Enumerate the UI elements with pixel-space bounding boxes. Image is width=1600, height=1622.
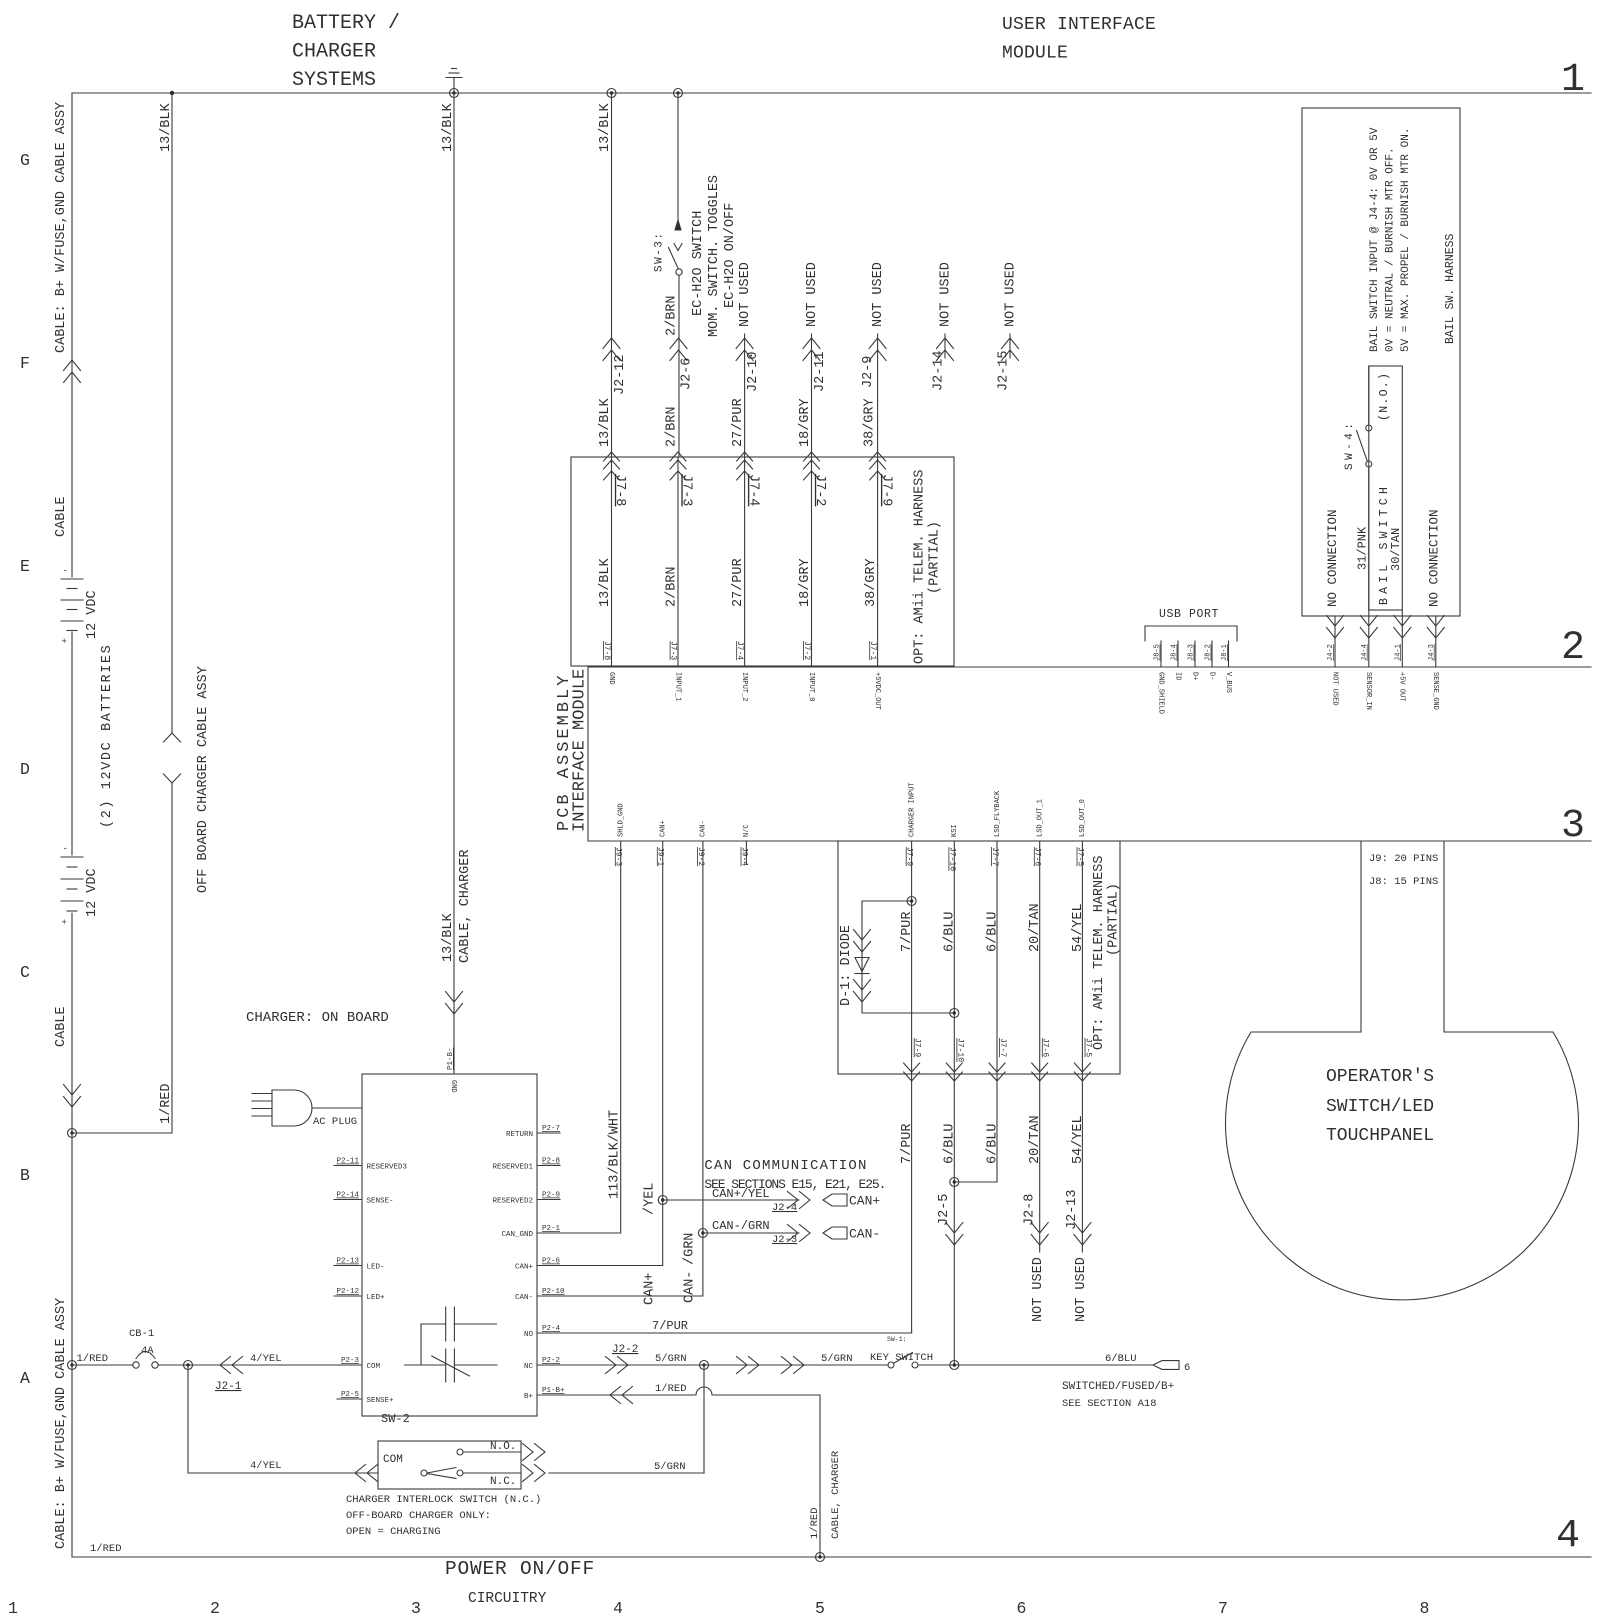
svg-text:27/PUR: 27/PUR [731, 398, 746, 447]
svg-text:J2-5: J2-5 [937, 1194, 952, 1226]
svg-text:POWER ON/OFF: POWER ON/OFF [445, 1558, 595, 1580]
svg-text:BAIL SW. HARNESS: BAIL SW. HARNESS [1444, 233, 1457, 344]
wire rail 2 (PCB module top edge) [588, 666, 1591, 668]
svg-text:J2-9: J2-9 [861, 356, 876, 388]
svg-text:J7-5: J7-5 [1083, 1038, 1092, 1057]
svg-text:(PARTIAL): (PARTIAL) [1107, 883, 1122, 956]
svg-text:CHARGER: ON BOARD: CHARGER: ON BOARD [246, 1010, 389, 1026]
connector chevron J4-3 [1427, 616, 1444, 639]
svg-text:N.C.: N.C. [490, 1476, 516, 1488]
wire stub P1-B+ [537, 1394, 560, 1396]
wire stub P2-2 [537, 1364, 560, 1366]
node junction ground / charger GND wire [450, 89, 459, 98]
svg-text:13/BLK: 13/BLK [441, 102, 456, 152]
connector chevron 1/RED [610, 1387, 633, 1404]
svg-text:SW-3:: SW-3: [654, 231, 666, 272]
svg-text:CHARGER: CHARGER [292, 41, 376, 64]
svg-text:NOT USED: NOT USED [1003, 262, 1018, 327]
svg-text:2: 2 [1561, 626, 1585, 671]
connector chevron N.C. [523, 1465, 546, 1482]
svg-text:27/PUR: 27/PUR [731, 558, 746, 607]
connector chevron J7-9 [870, 452, 886, 480]
svg-text:P1-B+: P1-B+ [542, 1387, 565, 1395]
wire 5/GRN drop [703, 1365, 705, 1473]
svg-text:SWITCH/LED: SWITCH/LED [1326, 1097, 1434, 1117]
svg-text:NC: NC [524, 1363, 534, 1371]
switch SW-3 EC-H2O momentary [669, 220, 683, 275]
wire stub P2-10 [537, 1295, 560, 1297]
node junction 13/BLK J2-12 wire [607, 89, 616, 98]
svg-text:7/PUR: 7/PUR [900, 911, 915, 952]
svg-text:J2-4: J2-4 [772, 1202, 797, 1214]
svg-text:F: F [20, 354, 30, 373]
wire CAN+ branch to J2-4 [663, 1199, 799, 1201]
svg-text:J8-4: J8-4 [1171, 644, 1179, 661]
svg-text:P1-B-: P1-B- [447, 1047, 455, 1070]
box OPT AMii telem harness (lower) [838, 841, 1120, 1074]
svg-text:5V = MAX. PROPEL / BURNISH MTR: 5V = MAX. PROPEL / BURNISH MTR ON. [1400, 128, 1412, 352]
svg-text:CAN-: CAN- [515, 1294, 533, 1302]
connector chevron J4-1 [1394, 616, 1411, 639]
svg-text:CAN-: CAN- [700, 820, 708, 837]
wire 13/BLK inside telem harness [611, 457, 613, 667]
svg-text:J7-7: J7-7 [998, 1038, 1007, 1057]
svg-text:7/PUR: 7/PUR [900, 1123, 915, 1164]
svg-text:NOT USED: NOT USED [805, 262, 820, 327]
wire 6/BLU lsd_flyback [954, 841, 997, 1182]
connector chevron J2-10 [736, 338, 753, 361]
svg-text:J7-8: J7-8 [612, 474, 627, 506]
battery BAT2 12VDC [61, 857, 83, 911]
svg-text:6/BLU: 6/BLU [1105, 1353, 1137, 1365]
svg-text:NOT USED: NOT USED [1074, 1257, 1089, 1322]
svg-text:B+: B+ [524, 1393, 534, 1401]
svg-text:NOT USED: NOT USED [938, 262, 953, 327]
wire 1/RED drop to rail 4 [819, 1395, 821, 1557]
wire 4/YEL to SW-2 [188, 1472, 378, 1474]
connector chevron J2-4 [788, 1192, 811, 1209]
svg-text:CHARGER INTERLOCK SWITCH (N.C.: CHARGER INTERLOCK SWITCH (N.C.) [346, 1494, 541, 1506]
svg-text:CAN-: CAN- [849, 1227, 880, 1242]
svg-text:J2-1: J2-1 [215, 1381, 242, 1393]
connector chevron J7-3 [670, 452, 686, 480]
svg-text:P2-2: P2-2 [542, 1357, 560, 1365]
svg-text:6/BLU: 6/BLU [985, 1123, 1000, 1164]
svg-text:12 VDC: 12 VDC [85, 868, 100, 917]
battery BAT1 12VDC [61, 579, 83, 631]
svg-text:J9-1: J9-1 [656, 847, 665, 866]
svg-text:P2-8: P2-8 [542, 1158, 560, 1166]
svg-text:J7-3: J7-3 [669, 641, 678, 660]
svg-text:J2-2: J2-2 [612, 1344, 638, 1356]
svg-text:P2-11: P2-11 [336, 1158, 359, 1166]
svg-text:J2-6: J2-6 [679, 358, 694, 390]
svg-text:G: G [20, 151, 30, 170]
svg-text:54/YEL: 54/YEL [1071, 903, 1086, 952]
svg-text:P2-9: P2-9 [542, 1192, 560, 1200]
wire 30/TAN below inner box [1401, 610, 1403, 667]
svg-text:D-: D- [1207, 672, 1215, 680]
wire 18/GRY J2-11 [811, 334, 813, 457]
wire 5/GRN charger NC to junction [560, 1364, 704, 1366]
svg-text:38/GRY: 38/GRY [862, 398, 877, 447]
svg-text:J2-11: J2-11 [813, 351, 828, 392]
wire 13/BLK J2-12 [611, 93, 613, 457]
svg-text:2: 2 [210, 1599, 220, 1618]
svg-text:J7-4: J7-4 [735, 641, 744, 660]
svg-text:2/BRN: 2/BRN [664, 406, 679, 447]
svg-text:SW-2: SW-2 [381, 1412, 410, 1426]
wire stub P2-6 [537, 1265, 560, 1267]
svg-text:4A: 4A [141, 1345, 154, 1357]
svg-text:J7-10: J7-10 [955, 1038, 964, 1062]
svg-text:SENSE_GND: SENSE_GND [1431, 672, 1439, 710]
svg-text:P2-3: P2-3 [341, 1357, 360, 1365]
svg-text:8: 8 [1420, 1599, 1430, 1618]
svg-text:31/PNK: 31/PNK [1356, 526, 1370, 570]
connector chevron on left cable [64, 360, 81, 383]
circuit breaker CB-1 4A [133, 1352, 158, 1369]
svg-text:J7-9: J7-9 [905, 847, 914, 866]
svg-text:+5VDC_OUT: +5VDC_OUT [873, 672, 881, 710]
svg-text:C: C [20, 963, 30, 982]
connector chevron J2-15 [1002, 338, 1019, 361]
svg-text:13/BLK: 13/BLK [598, 397, 613, 447]
wire stub J2-14 [944, 334, 946, 358]
USB port bracket [1145, 626, 1237, 641]
svg-text:ID: ID [1173, 672, 1181, 680]
svg-text:E: E [20, 557, 30, 576]
svg-text:1/RED: 1/RED [90, 1543, 122, 1555]
svg-text:12 VDC: 12 VDC [85, 590, 100, 639]
svg-text:A: A [20, 1369, 30, 1388]
svg-text:-: - [63, 844, 68, 854]
svg-text:RESERVED3: RESERVED3 [367, 1164, 408, 1172]
svg-text:13/BLK: 13/BLK [441, 912, 456, 962]
svg-text:OFF-BOARD CHARGER ONLY:: OFF-BOARD CHARGER ONLY: [346, 1510, 491, 1522]
wire 38/GRY J2-9 [877, 334, 879, 457]
svg-text:+: + [62, 918, 67, 928]
wire stub P2-1 [537, 1232, 560, 1234]
svg-text:EC-H2O ON/OFF: EC-H2O ON/OFF [723, 203, 738, 308]
wire 38/GRY inside telem harness [877, 457, 879, 667]
node junction KSI / key switch [950, 1361, 959, 1370]
wire stub P2-5 SENSE+ [337, 1398, 362, 1400]
connector chevron J7-4 [737, 452, 753, 480]
svg-text:SEE SECTION A18: SEE SECTION A18 [1062, 1398, 1157, 1410]
box bail switch (N.O.) [1369, 366, 1403, 610]
svg-text:COM: COM [383, 1454, 403, 1466]
svg-text:113/BLK/WHT: 113/BLK/WHT [608, 1110, 623, 1199]
svg-text:J9-3: J9-3 [614, 847, 623, 866]
svg-text:INPUT_1: INPUT_1 [673, 672, 681, 701]
wire stub P2-13 [334, 1265, 362, 1267]
svg-text:J4-2: J4-2 [1327, 644, 1335, 661]
svg-text:SENSE+: SENSE+ [367, 1397, 395, 1405]
svg-text:CABLE, CHARGER: CABLE, CHARGER [830, 1450, 842, 1539]
svg-text:4: 4 [613, 1599, 623, 1618]
svg-text:J8-3: J8-3 [1188, 644, 1196, 661]
svg-text:4/YEL: 4/YEL [250, 1353, 282, 1365]
svg-text:COM: COM [367, 1363, 381, 1371]
box charger on board [362, 1074, 537, 1416]
svg-text:2/BRN: 2/BRN [664, 295, 679, 336]
svg-text:J7-1: J7-1 [868, 641, 877, 660]
node junction diode to 7/PUR [907, 897, 916, 906]
connector chevron J2-13 [1074, 1223, 1091, 1246]
svg-text:+: + [62, 637, 67, 647]
svg-text:NOT USED: NOT USED [871, 262, 886, 327]
svg-text:J4-4: J4-4 [1361, 644, 1369, 661]
svg-text:NOT USED: NOT USED [1031, 1257, 1046, 1322]
svg-text:LSD_OUT_0: LSD_OUT_0 [1079, 799, 1087, 837]
svg-text:OPT: AMii TELEM. HARNESS: OPT: AMii TELEM. HARNESS [912, 470, 927, 664]
wire 13/BLK to SW-3 [677, 93, 679, 219]
svg-text:5/GRN: 5/GRN [654, 1461, 686, 1473]
wire 31/PNK below SW-4 [1368, 467, 1370, 667]
svg-text:NOT USED: NOT USED [738, 262, 753, 327]
svg-text:CABLE: CABLE [54, 1006, 69, 1047]
svg-text:SENSE-: SENSE- [367, 1198, 394, 1206]
wire USB stub J8-3 [1194, 641, 1196, 667]
svg-text:INTERFACE MODULE: INTERFACE MODULE [571, 669, 590, 832]
svg-text:J9-2: J9-2 [696, 847, 705, 866]
svg-text:NO CONNECTION: NO CONNECTION [1427, 509, 1441, 607]
wire 113/BLK/WHT shld_gnd to charger CAN_GND [559, 841, 621, 1233]
svg-text:/YEL: /YEL [643, 1183, 658, 1215]
svg-text:TOUCHPANEL: TOUCHPANEL [1326, 1126, 1434, 1146]
wire 4/YEL CB-1 to charger COM [158, 1364, 362, 1366]
svg-text:J7-2: J7-2 [812, 474, 827, 506]
svg-text:3: 3 [411, 1599, 421, 1618]
wire diode branch [862, 901, 954, 1013]
node junction 1/RED rail 4 [816, 1553, 825, 1562]
svg-text:J7-6: J7-6 [1041, 1038, 1050, 1057]
operator's switch/led touchpanel outline [1225, 841, 1578, 1300]
svg-text:INPUT_0: INPUT_0 [807, 672, 815, 701]
svg-text:USER INTERFACE: USER INTERFACE [1002, 15, 1156, 35]
svg-text:J7-5: J7-5 [1075, 847, 1084, 866]
svg-text:30/TAN: 30/TAN [1389, 528, 1403, 571]
wire 7/PUR charger NO to harness [560, 1332, 912, 1334]
connector chevron on left cable (lower) [64, 1085, 81, 1108]
switch SW-2 contacts [421, 1449, 463, 1479]
svg-text:EC-H2O SWITCH: EC-H2O SWITCH [691, 211, 706, 316]
svg-text:5/GRN: 5/GRN [821, 1353, 853, 1365]
connector chevron 5/GRN a [737, 1357, 760, 1374]
wire 5/GRN interlock return [549, 1472, 704, 1474]
svg-text:6/BLU: 6/BLU [985, 911, 1000, 952]
svg-text:RESERVED2: RESERVED2 [492, 1198, 533, 1206]
svg-text:7: 7 [1218, 1599, 1228, 1618]
diode D-1 [855, 958, 869, 974]
box SW-2 charger interlock switch [378, 1441, 521, 1489]
svg-text:6/BLU: 6/BLU [943, 1123, 958, 1164]
svg-text:MOM. SWITCH. TOGGLES: MOM. SWITCH. TOGGLES [707, 175, 722, 337]
connector chevron charger gnd cable [446, 992, 463, 1015]
svg-text:J8-2: J8-2 [1205, 644, 1213, 661]
svg-text:P2-4: P2-4 [542, 1325, 561, 1333]
svg-text:J9: 20 PINS: J9: 20 PINS [1369, 853, 1438, 865]
svg-text:CHARGER INPUT: CHARGER INPUT [908, 782, 916, 837]
svg-text:LSD_FLYBACK: LSD_FLYBACK [994, 790, 1002, 837]
connector chevron diode J7-9 side [854, 930, 871, 953]
wire USB stub J8-2 [1211, 641, 1213, 667]
svg-text:P2-10: P2-10 [542, 1288, 565, 1296]
connector chevron J7-10 exit [946, 1063, 962, 1081]
svg-text:13/BLK: 13/BLK [598, 557, 613, 607]
svg-text:USB PORT: USB PORT [1159, 608, 1219, 621]
svg-text:1: 1 [8, 1599, 18, 1618]
svg-text:J7-8: J7-8 [602, 641, 611, 660]
svg-text:J7-2: J7-2 [802, 641, 811, 660]
connector chevron J2-2 [606, 1357, 629, 1374]
wire stub P2-11 [334, 1165, 362, 1167]
svg-text:SHLD_GND: SHLD_GND [617, 803, 625, 837]
svg-text:CB-1: CB-1 [129, 1328, 154, 1340]
node junction 5/GRN [700, 1361, 709, 1370]
svg-text:BAIL SWITCH INPUT @ J4-4: 0V O: BAIL SWITCH INPUT @ J4-4: 0V OR 5V [1369, 127, 1381, 352]
ground symbol chassis earth [446, 69, 462, 94]
node junction battery string to off-board charger cable [68, 1129, 77, 1138]
svg-text:P2-12: P2-12 [336, 1288, 359, 1296]
svg-text:J2-10: J2-10 [746, 351, 761, 392]
connector break upper Y-split [164, 733, 181, 742]
wire 2/BRN inside telem harness [677, 457, 679, 667]
box PCB interface module left edge [587, 667, 589, 841]
wire 6/BLU key switch output [918, 1364, 1153, 1366]
svg-text:38/GRY: 38/GRY [864, 558, 879, 607]
svg-text:N.O.: N.O. [490, 1441, 516, 1453]
switch SW-1 key switch [888, 1353, 918, 1369]
wire stub P2-12 [334, 1295, 362, 1297]
wire USB stub J8-1 [1228, 641, 1230, 667]
svg-text:J7-6: J7-6 [1033, 847, 1042, 866]
svg-text:CABLE: B+ W/FUSE,GND CABLE ASS: CABLE: B+ W/FUSE,GND CABLE ASSY [54, 1298, 69, 1549]
svg-text:GND_SHIELD: GND_SHIELD [1156, 672, 1164, 714]
box OPT AMii telem harness (upper) [571, 457, 954, 666]
node junction 13/BLK SW-3 wire [674, 89, 683, 98]
svg-text:SEE SECTIONS E15, E21, E25.: SEE SECTIONS E15, E21, E25. [704, 1177, 885, 1192]
connector chevron N.O. [523, 1444, 546, 1461]
wire 2/BRN below SW-3 [678, 275, 680, 457]
svg-text:1/RED: 1/RED [809, 1507, 821, 1539]
node junction KSI / lsd_flyback [950, 1178, 959, 1187]
connector chevron J2-6 [670, 338, 687, 361]
connector break lower Y-split [164, 774, 181, 783]
node junction CAN+ branch [658, 1196, 667, 1205]
svg-text:(N.O.): (N.O.) [1378, 372, 1391, 421]
wire 1/RED off-board charger cable (lower) [171, 783, 173, 1133]
connector chevron J2-5 [946, 1223, 963, 1246]
wire left B+ cable vertical x=72 [71, 93, 73, 1557]
wire battery bottom to 1/RED riser [72, 1132, 172, 1134]
svg-text:J7-4: J7-4 [745, 474, 760, 506]
svg-text:4/YEL: 4/YEL [250, 1460, 282, 1472]
svg-text:J2-3: J2-3 [772, 1234, 797, 1246]
connector chevron J2-12 [603, 338, 620, 361]
svg-text:KEY SWITCH: KEY SWITCH [870, 1352, 933, 1364]
connector chevron diode J7-10 side [854, 980, 871, 1003]
svg-text:P2-6: P2-6 [542, 1258, 561, 1266]
svg-text:1/RED: 1/RED [77, 1353, 109, 1365]
svg-text:N/C: N/C [743, 824, 751, 837]
svg-text:J8-5: J8-5 [1154, 644, 1162, 661]
svg-text:54/YEL: 54/YEL [1071, 1115, 1086, 1164]
wire USB stub J8-5 [1160, 641, 1162, 667]
svg-text:P2-5: P2-5 [341, 1391, 360, 1399]
wire stub J2-15 [1009, 334, 1011, 358]
connector plug 6/BLU off-page [1153, 1361, 1179, 1370]
wire J4-2 no connection [1334, 616, 1336, 667]
connector chevron J2-14 [937, 338, 954, 361]
svg-text:/GRN: /GRN [683, 1233, 698, 1265]
svg-text:1: 1 [1561, 58, 1585, 103]
svg-text:1/RED: 1/RED [655, 1383, 687, 1395]
connector chevron J7-2 [804, 452, 820, 480]
svg-text:J4-3: J4-3 [1428, 644, 1436, 661]
svg-text:6/BLU: 6/BLU [943, 911, 958, 952]
svg-text:MODULE: MODULE [1002, 44, 1068, 64]
svg-text:GND: GND [449, 1080, 457, 1093]
wire CAN- /GRN to charger [559, 841, 703, 1296]
wire 5/GRN to key switch [704, 1364, 888, 1366]
svg-text:OPT: AMii TELEM. HARNESS: OPT: AMii TELEM. HARNESS [1092, 856, 1107, 1050]
connector chevron J7-8 [604, 452, 620, 480]
wire rail 4 (1/RED B+ bus) [72, 1556, 1591, 1558]
svg-text:18/GRY: 18/GRY [798, 558, 813, 607]
svg-text:J7-3: J7-3 [679, 474, 694, 506]
svg-text:J9-4: J9-4 [739, 847, 748, 866]
connector plug CAN- [823, 1227, 847, 1239]
wire rail 1 (13/BLK ground bus) [72, 92, 1591, 94]
svg-text:P2-7: P2-7 [542, 1125, 560, 1133]
svg-text:J7-9: J7-9 [878, 474, 893, 506]
connector chevron 5/GRN b [782, 1357, 805, 1374]
svg-text:CIRCUITRY: CIRCUITRY [468, 1591, 547, 1607]
svg-text:J2-15: J2-15 [996, 350, 1011, 391]
svg-text:J2-14: J2-14 [931, 350, 946, 391]
wire stub P2-9 [537, 1199, 560, 1201]
wire CAN- branch to J2-3 [703, 1232, 799, 1234]
svg-text:CAN_GND: CAN_GND [501, 1231, 533, 1239]
wire 20/TAN lsd_out_1 [1039, 841, 1041, 1252]
svg-text:P2-14: P2-14 [336, 1192, 359, 1200]
svg-text:6: 6 [1184, 1362, 1190, 1374]
svg-text:BATTERY /: BATTERY / [292, 12, 400, 35]
box bail sw. harness [1302, 108, 1460, 616]
svg-text:13/BLK: 13/BLK [159, 102, 174, 152]
svg-text:SWITCHED/FUSED/B+: SWITCHED/FUSED/B+ [1062, 1381, 1174, 1393]
wire stub P2-7 [537, 1132, 560, 1134]
svg-text:J7-10: J7-10 [947, 847, 956, 871]
svg-text:J2-8: J2-8 [1023, 1194, 1038, 1226]
wire stub N/C J9-4 [745, 841, 747, 864]
svg-text:5: 5 [815, 1599, 825, 1618]
svg-text:SYSTEMS: SYSTEMS [292, 69, 376, 92]
connector chevron J2-3 [788, 1225, 811, 1242]
svg-text:2/BRN: 2/BRN [664, 566, 679, 607]
svg-text:KSI: KSI [951, 824, 959, 837]
svg-text:CAN+: CAN+ [643, 1273, 658, 1305]
svg-text:J8-1: J8-1 [1221, 644, 1229, 661]
svg-text:CABLE: B+ W/FUSE,GND CABLE ASS: CABLE: B+ W/FUSE,GND CABLE ASSY [54, 102, 69, 353]
wire stub P2-4 [537, 1332, 560, 1334]
svg-text:INPUT_2: INPUT_2 [740, 672, 748, 701]
wire 18/GRY inside telem harness [811, 457, 813, 667]
wire 31/PNK above SW-4 [1368, 366, 1370, 425]
svg-text:P2-13: P2-13 [336, 1258, 359, 1266]
